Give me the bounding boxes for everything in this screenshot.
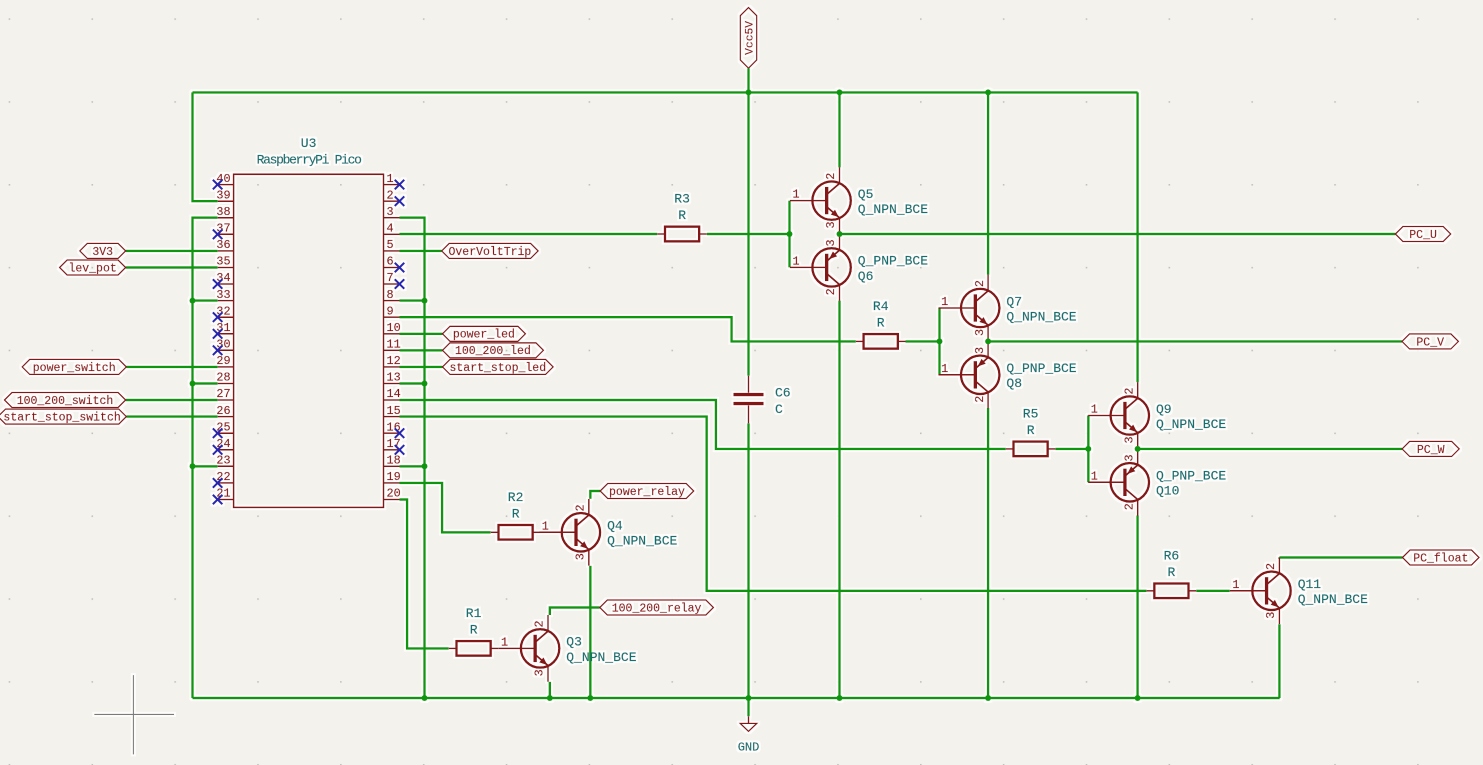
svg-text:R3: R3 <box>674 192 690 207</box>
svg-text:20: 20 <box>387 487 401 501</box>
wire pin 10 to power_led <box>400 333 443 335</box>
wire Q5 collector to bus <box>838 92 840 167</box>
svg-text:3V3: 3V3 <box>92 246 113 259</box>
wire Q7 Q8 base vertical <box>938 308 940 375</box>
wire Q4 collector to power_relay <box>590 491 600 499</box>
capacitor C6 <box>734 376 791 424</box>
junction <box>746 695 752 701</box>
wire R5 to Q9 Q10 base node <box>1055 448 1088 450</box>
svg-text:PC_V: PC_V <box>1416 336 1444 349</box>
net label lev_pot <box>60 260 126 275</box>
svg-text:Q6: Q6 <box>858 269 874 284</box>
wire power_switch to pin 29 <box>126 366 217 368</box>
net label power_relay <box>600 484 694 499</box>
wire pin 4 to R3 <box>400 233 658 235</box>
wire Q11 collector to PC_float <box>1279 556 1402 558</box>
svg-text:R: R <box>512 506 520 521</box>
svg-text:23: 23 <box>216 454 230 468</box>
svg-text:Q4: Q4 <box>607 519 623 534</box>
wire stub pin 8 <box>400 299 425 301</box>
net label 100_200_led <box>443 343 544 358</box>
svg-text:OverVoltTrip: OverVoltTrip <box>448 246 531 259</box>
svg-text:power_relay: power_relay <box>609 486 685 499</box>
svg-text:Q_NPN_BCE: Q_NPN_BCE <box>1156 417 1226 432</box>
svg-text:Q_PNP_BCE: Q_PNP_BCE <box>1006 361 1076 376</box>
wire stub pin 23 <box>193 465 218 467</box>
junction <box>837 231 843 237</box>
svg-text:Q10: Q10 <box>1156 484 1179 499</box>
transistor Q8 <box>939 341 1077 408</box>
power symbol GND <box>738 716 760 754</box>
svg-text:2: 2 <box>1264 563 1278 570</box>
svg-text:100_200_led: 100_200_led <box>455 345 531 358</box>
wire Q5 Q6 base vertical <box>788 201 790 268</box>
svg-text:15: 15 <box>387 404 401 418</box>
svg-text:3: 3 <box>533 669 547 676</box>
svg-text:2: 2 <box>1122 503 1136 510</box>
junction <box>1135 446 1141 452</box>
svg-text:lev_pot: lev_pot <box>68 262 116 275</box>
wire R3 to Q5 Q6 base node <box>707 233 790 235</box>
wire Vcc5V to pin 39 <box>193 92 218 201</box>
wire Q7 collector to bus <box>987 92 989 274</box>
resistor R2 <box>491 490 541 540</box>
power symbol Vcc5V <box>740 8 756 69</box>
wire pin 11 to 100_200_led <box>400 349 443 351</box>
wire pin 12 to start_stop_led <box>400 366 443 368</box>
wire node PC_W <box>1138 448 1403 450</box>
net label start_stop_led <box>443 359 554 374</box>
svg-text:100_200_switch: 100_200_switch <box>17 395 114 408</box>
wire left GND rail <box>193 218 218 698</box>
junction <box>190 381 196 387</box>
junction <box>837 695 843 701</box>
junction <box>547 695 553 701</box>
svg-text:start_stop_switch: start_stop_switch <box>3 412 120 425</box>
svg-text:3: 3 <box>973 347 987 354</box>
resistor R3 <box>657 192 707 242</box>
transistor Q4 <box>539 499 677 566</box>
svg-text:Q_NPN_BCE: Q_NPN_BCE <box>607 534 677 549</box>
junction <box>937 338 943 344</box>
svg-text:U3: U3 <box>301 136 317 151</box>
svg-text:1: 1 <box>542 519 549 533</box>
svg-text:PC_U: PC_U <box>1409 229 1437 242</box>
svg-text:Q8: Q8 <box>1006 376 1022 391</box>
svg-text:6: 6 <box>387 255 394 269</box>
svg-text:R: R <box>678 208 686 223</box>
wire pin 14 to R5 <box>400 400 1006 449</box>
svg-text:C: C <box>775 402 783 417</box>
svg-text:13: 13 <box>387 371 401 385</box>
svg-text:Q_PNP_BCE: Q_PNP_BCE <box>858 254 928 269</box>
svg-text:PC_W: PC_W <box>1417 444 1445 457</box>
svg-text:27: 27 <box>216 387 230 401</box>
svg-text:Q_NPN_BCE: Q_NPN_BCE <box>1006 309 1076 324</box>
no-connect X marks <box>213 180 404 505</box>
svg-text:2: 2 <box>533 620 547 627</box>
junction <box>422 695 428 701</box>
svg-text:R: R <box>470 622 478 637</box>
svg-text:R: R <box>1167 565 1175 580</box>
svg-text:Q3: Q3 <box>566 635 582 650</box>
resistor R1 <box>449 606 499 656</box>
svg-text:2: 2 <box>574 504 588 511</box>
wire Q6 collector to bus <box>838 301 840 698</box>
svg-text:3: 3 <box>824 239 838 246</box>
svg-text:power_led: power_led <box>453 329 515 342</box>
svg-text:2: 2 <box>824 288 838 295</box>
wire C6 to GND <box>747 423 749 716</box>
net label power_led <box>443 326 526 341</box>
wire pin 5 to OverVoltTrip <box>400 250 442 252</box>
svg-text:C6: C6 <box>775 385 791 400</box>
net label power_switch <box>22 359 126 374</box>
wire stub pin 33 <box>193 299 218 301</box>
svg-text:Q_NPN_BCE: Q_NPN_BCE <box>566 650 636 665</box>
svg-text:1: 1 <box>1091 403 1098 417</box>
U3 left pins 40-21 with numbers <box>216 172 233 501</box>
origin crosshair marker <box>94 675 174 754</box>
svg-text:39: 39 <box>216 188 230 202</box>
net label 100_200_relay <box>600 600 714 615</box>
net label PC_U <box>1395 227 1450 242</box>
wire node PC_V <box>988 340 1402 342</box>
svg-text:8: 8 <box>387 288 394 302</box>
svg-text:3: 3 <box>1122 436 1136 443</box>
wire 100_200_switch to pin 27 <box>126 399 218 401</box>
svg-text:18: 18 <box>387 454 401 468</box>
junction <box>587 695 593 701</box>
junction <box>1085 446 1091 452</box>
transistor Q3 <box>498 615 636 682</box>
transistor Q10 <box>1088 449 1226 516</box>
svg-text:2: 2 <box>973 280 987 287</box>
svg-text:36: 36 <box>216 238 230 252</box>
svg-text:10: 10 <box>387 321 401 335</box>
svg-text:1: 1 <box>387 172 394 186</box>
junction <box>422 381 428 387</box>
svg-text:3: 3 <box>973 329 987 336</box>
wire stub pin 28 <box>193 382 218 384</box>
wire R4 to Q7 Q8 base node <box>906 340 940 342</box>
wire stub pin 13 <box>400 382 425 384</box>
transistor Q6 <box>790 234 928 301</box>
svg-text:7: 7 <box>387 271 394 285</box>
junction <box>985 89 991 95</box>
svg-text:2: 2 <box>824 173 838 180</box>
junction <box>837 89 843 95</box>
svg-text:2: 2 <box>1122 388 1136 395</box>
svg-text:1: 1 <box>941 295 948 309</box>
svg-text:5: 5 <box>387 238 394 252</box>
svg-text:3: 3 <box>387 205 394 219</box>
wire Vcc vertical to C6 <box>747 68 749 375</box>
svg-text:3: 3 <box>1122 454 1136 461</box>
junction <box>787 231 793 237</box>
net label 100_200_switch <box>5 393 126 408</box>
wire R6 to Q11 base <box>1196 590 1230 592</box>
wire Q3 collector to 100_200_relay <box>550 608 600 616</box>
svg-text:3: 3 <box>824 221 838 228</box>
wire node PC_U <box>840 233 1396 235</box>
svg-text:2: 2 <box>387 188 394 202</box>
wire Q3 emitter to bus <box>549 682 551 698</box>
wire Q9 Q10 base vertical <box>1087 416 1089 483</box>
svg-text:Q5: Q5 <box>858 187 874 202</box>
svg-text:R2: R2 <box>508 490 524 505</box>
svg-text:4: 4 <box>387 222 394 236</box>
svg-text:12: 12 <box>387 354 401 368</box>
net label start_stop_switch <box>0 409 126 424</box>
svg-text:35: 35 <box>216 255 230 269</box>
resistor R5 <box>1006 407 1056 457</box>
wire Q9 collector from top bus <box>1136 92 1138 382</box>
svg-text:R4: R4 <box>873 299 889 314</box>
junction <box>985 338 991 344</box>
junction <box>190 298 196 304</box>
wire pin 19 to R2 <box>400 483 491 532</box>
junction <box>190 463 196 469</box>
wire pin 9 to R4 <box>400 317 856 341</box>
svg-text:Vcc5V: Vcc5V <box>745 21 757 55</box>
junction <box>746 89 752 95</box>
svg-text:R1: R1 <box>466 606 482 621</box>
svg-text:Q_NPN_BCE: Q_NPN_BCE <box>1298 592 1368 607</box>
wire pin 20 to R1 <box>400 500 449 649</box>
svg-text:3: 3 <box>574 553 588 560</box>
junction <box>422 463 428 469</box>
svg-text:9: 9 <box>387 304 394 318</box>
svg-text:Q9: Q9 <box>1156 402 1172 417</box>
svg-text:1: 1 <box>793 188 800 202</box>
svg-text:GND: GND <box>738 741 760 755</box>
svg-text:Q_NPN_BCE: Q_NPN_BCE <box>858 202 928 217</box>
svg-text:power_switch: power_switch <box>33 362 116 375</box>
junction <box>985 695 991 701</box>
svg-text:start_stop_led: start_stop_led <box>449 362 546 375</box>
svg-text:19: 19 <box>387 470 401 484</box>
wire right GND rail <box>400 218 425 698</box>
transistor Q7 <box>939 275 1077 342</box>
U3 right pins 1-20 with numbers <box>384 172 401 501</box>
svg-text:11: 11 <box>387 338 401 352</box>
net label 3V3 <box>80 243 126 258</box>
svg-text:14: 14 <box>387 387 401 401</box>
net label PC_W <box>1402 441 1459 456</box>
svg-text:Q11: Q11 <box>1298 577 1322 592</box>
wire lev_pot to pin 35 <box>126 266 218 268</box>
wire bottom bus <box>193 697 1280 699</box>
wire Q10 collector to bus <box>1136 516 1138 699</box>
svg-text:PC_float: PC_float <box>1413 552 1468 565</box>
svg-text:1: 1 <box>1091 469 1098 483</box>
wire 3V3 to pin 36 <box>126 250 218 252</box>
svg-text:1: 1 <box>501 635 508 649</box>
transistor Q5 <box>790 167 928 234</box>
svg-text:26: 26 <box>216 404 230 418</box>
svg-text:100_200_relay: 100_200_relay <box>612 602 702 615</box>
svg-text:R6: R6 <box>1164 549 1180 564</box>
wire start_stop_switch to pin 26 <box>126 415 217 417</box>
svg-text:1: 1 <box>793 254 800 268</box>
wire Q11 emitter to bus <box>1278 624 1280 698</box>
svg-text:33: 33 <box>216 288 230 302</box>
IC U3 RaspberryPi Pico body <box>234 136 384 507</box>
wire pin 15 to R6 <box>400 417 1147 591</box>
svg-text:3: 3 <box>1264 612 1278 619</box>
net label PC_V <box>1402 334 1458 349</box>
net label OverVoltTrip <box>442 243 538 258</box>
svg-text:R5: R5 <box>1023 407 1039 422</box>
svg-text:Q7: Q7 <box>1006 294 1022 309</box>
svg-text:2: 2 <box>973 396 987 403</box>
svg-text:R: R <box>877 315 885 330</box>
svg-text:1: 1 <box>1232 578 1239 592</box>
svg-text:29: 29 <box>216 354 230 368</box>
resistor R4 <box>856 299 906 349</box>
wire stub pin 18 <box>400 465 425 467</box>
resistor R6 <box>1147 549 1197 599</box>
junction <box>1135 695 1141 701</box>
svg-text:RaspberryPi Pico: RaspberryPi Pico <box>257 153 362 168</box>
svg-text:Q_PNP_BCE: Q_PNP_BCE <box>1156 469 1226 484</box>
svg-text:38: 38 <box>216 205 230 219</box>
transistor Q9 <box>1088 382 1226 449</box>
wire Q4 emitter to bus <box>589 566 591 698</box>
svg-text:1: 1 <box>941 362 948 376</box>
svg-text:R: R <box>1027 423 1035 438</box>
net label PC_float <box>1403 550 1480 565</box>
wire Q8 collector to bus <box>987 408 989 698</box>
svg-text:28: 28 <box>216 371 230 385</box>
wire top bus <box>193 91 1138 93</box>
transistor Q11 <box>1230 557 1368 624</box>
junction <box>422 298 428 304</box>
